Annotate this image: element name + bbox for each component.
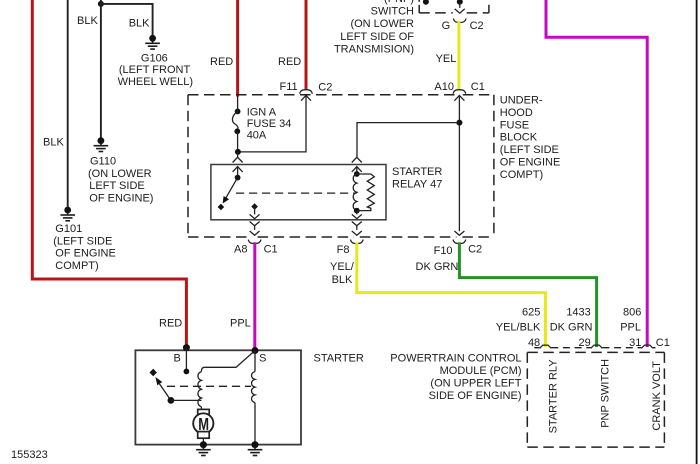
ground G101 (60, 207, 75, 221)
svg-text:PNP SWITCH: PNP SWITCH (600, 359, 612, 428)
svg-text:A10: A10 (434, 81, 454, 93)
svg-text:BLK: BLK (43, 137, 64, 149)
fuse bottom dot (234, 128, 240, 134)
pin F11 chevron (301, 95, 311, 100)
svg-text:48: 48 (528, 337, 540, 349)
svg-text:C2: C2 (468, 244, 482, 256)
coil bottom node (354, 208, 360, 214)
relay switch blade (226, 178, 238, 198)
fuse block right edge (493, 95, 495, 237)
svg-text:G110: G110 (90, 156, 116, 168)
relay switch contact (218, 204, 225, 211)
svg-text:(ON UPPER LEFT: (ON UPPER LEFT (430, 377, 521, 389)
svg-text:RELAY 47: RELAY 47 (392, 179, 442, 191)
wire coil to pin 85 (356, 211, 358, 215)
starter switch contact (150, 369, 157, 376)
pin G chevron (455, 9, 465, 13)
node G terminal (457, 0, 463, 5)
wire G stub (459, 2, 461, 8)
connector F11 C2 cup (300, 90, 313, 94)
svg-text:RED: RED (159, 318, 182, 330)
wire RED to F11 (305, 0, 308, 89)
wire to coil (356, 167, 358, 174)
connector C1 strip (534, 347, 539, 349)
wire to switch pivot (237, 167, 239, 178)
svg-text:CRANK VOLT: CRANK VOLT (651, 361, 663, 431)
wire node to relay switch (237, 152, 239, 157)
wire YEL/BLK F8 to PCM 48 (357, 242, 546, 347)
starter mech link dashed (167, 385, 251, 387)
relay mech link dashed (236, 192, 357, 194)
svg-text:POWERTRAIN CONTROL: POWERTRAIN CONTROL (390, 352, 521, 364)
svg-text:C2: C2 (470, 20, 484, 32)
ground G106 (145, 35, 160, 49)
svg-text:29: 29 (579, 337, 591, 349)
wire S to pull coil (201, 351, 255, 372)
relay suppression resistor (357, 174, 375, 211)
connector F10 C2 cup (453, 240, 466, 244)
starter switch blade (159, 383, 171, 401)
node B contact (184, 369, 190, 375)
wire coil to motor (200, 407, 202, 410)
wire pivot to motor (171, 399, 202, 401)
wire contact down (254, 207, 256, 215)
wire node to relay coil (357, 123, 459, 158)
relay pin 30 chevrons (233, 157, 243, 162)
svg-text:31: 31 (629, 337, 641, 349)
svg-text:(ON LOWER: (ON LOWER (88, 168, 152, 180)
starter switch arrowhead (155, 377, 162, 385)
motor brush top (198, 409, 210, 416)
svg-text:(LEFT SIDE: (LEFT SIDE (500, 144, 559, 156)
svg-text:YEL/: YEL/ (330, 261, 355, 273)
node junction top (98, 1, 104, 7)
wire B stub (185, 348, 187, 372)
svg-text:OF ENGINE): OF ENGINE) (89, 192, 153, 204)
wire S to hold coil (254, 351, 256, 372)
svg-text:40A: 40A (247, 129, 267, 141)
node starter gnd2 (252, 441, 259, 448)
connector C2 cup (453, 19, 466, 23)
wire PPL A8 to starter S (253, 242, 256, 350)
connector A10 C1 cup (453, 90, 466, 94)
pin F10 chevron (454, 231, 464, 235)
node B terminal (183, 344, 190, 351)
svg-text:STARTER: STARTER (392, 166, 442, 178)
ground G110 (94, 137, 109, 151)
svg-text:STARTER RLY: STARTER RLY (548, 359, 560, 434)
wire RED to starter B (32, 0, 186, 346)
relay coil entry chevrons (352, 157, 362, 162)
svg-text:RED: RED (278, 56, 301, 68)
svg-text:OF ENGINE: OF ENGINE (500, 157, 561, 169)
svg-text:PPL: PPL (620, 321, 641, 333)
node S terminal (252, 347, 259, 354)
fuse IGN A: top dot (235, 109, 241, 115)
svg-text:TRANSMISION): TRANSMISION) (334, 44, 414, 56)
svg-text:YEL/BLK: YEL/BLK (496, 321, 541, 333)
svg-text:G106: G106 (141, 53, 168, 65)
connector F8 cup (350, 240, 363, 244)
svg-text:COMPT): COMPT) (55, 260, 98, 272)
ground starter 2 (248, 441, 263, 455)
svg-text:F8: F8 (337, 244, 350, 256)
fuse block bottom edge (188, 236, 252, 238)
wire PPL to PCM 31 (546, 0, 647, 347)
wire F11 to fuse node (238, 95, 306, 151)
svg-text:DK GRN: DK GRN (416, 261, 459, 273)
svg-text:HOOD: HOOD (500, 107, 533, 119)
fuse block left edge (187, 95, 189, 237)
svg-text:C1: C1 (656, 337, 670, 349)
PCM box right edge (663, 352, 665, 447)
page right edge line (696, 0, 698, 464)
starter pull-in coil (198, 372, 201, 407)
svg-text:BLK: BLK (77, 15, 98, 27)
ground starter 1 (196, 441, 211, 455)
node fuse out (235, 149, 241, 155)
svg-text:IGN A: IGN A (247, 106, 277, 118)
svg-text:1433: 1433 (566, 307, 590, 319)
switch pivot node (235, 175, 241, 181)
wire fuse to node (237, 131, 239, 152)
svg-text:C1: C1 (471, 81, 485, 93)
PCM box bottom edge (527, 446, 664, 448)
svg-text:(LEFT FRONT: (LEFT FRONT (119, 64, 191, 76)
svg-text:(PNP): (PNP) (384, 0, 414, 5)
relay output contact (251, 203, 258, 210)
PNP box edge (419, 0, 489, 13)
motor brush bottom (198, 432, 210, 439)
svg-text:F10: F10 (434, 245, 453, 257)
pin 87 chevrons (250, 214, 260, 218)
starter hold-in coil (252, 372, 255, 403)
svg-text:YEL: YEL (436, 53, 457, 65)
pin 29 hump (591, 345, 603, 348)
svg-text:806: 806 (623, 307, 641, 319)
pin 31 hump (641, 345, 653, 348)
svg-text:FUSE: FUSE (500, 119, 529, 131)
pin A10 chevron (454, 95, 464, 100)
svg-text:UNDER-: UNDER- (500, 95, 543, 107)
switch pivot node (168, 397, 175, 404)
wire motor to ground (202, 438, 204, 445)
svg-text:G101: G101 (55, 223, 82, 235)
svg-text:S: S (259, 353, 266, 365)
svg-text:BLK: BLK (129, 18, 150, 30)
svg-text:F11: F11 (280, 81, 298, 93)
fuse block top edge (188, 94, 456, 96)
PCM box left edge (526, 352, 528, 447)
svg-text:(LEFT SIDE: (LEFT SIDE (53, 235, 112, 247)
svg-text:SWITCH: SWITCH (371, 6, 414, 18)
svg-text:LEFT SIDE OF: LEFT SIDE OF (340, 31, 414, 43)
svg-text:MODULE (PCM): MODULE (PCM) (440, 365, 522, 377)
wire RED to fuse (236, 0, 239, 97)
fuse 34 element (232, 111, 238, 131)
svg-text:BLK: BLK (332, 274, 353, 286)
wire A10 down to F10 (458, 95, 460, 231)
svg-text:B: B (174, 353, 181, 365)
wire BLK to G101 (67, 0, 69, 207)
svg-text:A8: A8 (234, 244, 247, 256)
wire BLK to G106 (101, 4, 153, 36)
svg-text:LEFT SIDE: LEFT SIDE (89, 180, 144, 192)
svg-text:COMPT): COMPT) (500, 169, 543, 181)
svg-text:RED: RED (210, 56, 233, 68)
wire YEL (G C2 to A10 C1) (457, 21, 460, 90)
node inside PNP box (423, 0, 429, 5)
svg-text:DK GRN: DK GRN (550, 321, 593, 333)
motor M (193, 413, 213, 433)
wire DK GRN F10 to PCM 29 (459, 242, 596, 347)
svg-text:PPL: PPL (230, 318, 251, 330)
svg-text:(ON LOWER: (ON LOWER (350, 18, 414, 30)
svg-text:FUSE 34: FUSE 34 (247, 118, 292, 130)
coil top node (354, 171, 360, 177)
svg-text:OF ENGINE: OF ENGINE (55, 248, 116, 260)
connector A8 C1 cup (248, 240, 261, 244)
wire BLK to G110 (100, 0, 102, 138)
node starter gnd1 (200, 441, 207, 448)
pin 48 hump (540, 345, 552, 348)
svg-text:WHEEL WELL): WHEEL WELL) (118, 76, 193, 88)
node relay feed (456, 120, 462, 126)
relay coil winding (353, 174, 357, 211)
wire coil to ground (254, 403, 256, 445)
relay switch arrowhead (223, 196, 230, 204)
svg-text:BLOCK: BLOCK (500, 132, 538, 144)
svg-text:STARTER: STARTER (314, 353, 364, 365)
svg-text:G: G (442, 20, 451, 32)
svg-text:SIDE OF ENGINE): SIDE OF ENGINE) (429, 390, 522, 402)
wire red end to fuse (237, 96, 239, 111)
PCM box top edge (527, 351, 664, 353)
pin 85 chevrons (352, 214, 362, 218)
relay box (211, 165, 386, 220)
svg-text:C1: C1 (264, 244, 278, 256)
svg-text:155323: 155323 (11, 449, 48, 461)
svg-text:C2: C2 (318, 82, 332, 94)
svg-text:625: 625 (522, 307, 540, 319)
